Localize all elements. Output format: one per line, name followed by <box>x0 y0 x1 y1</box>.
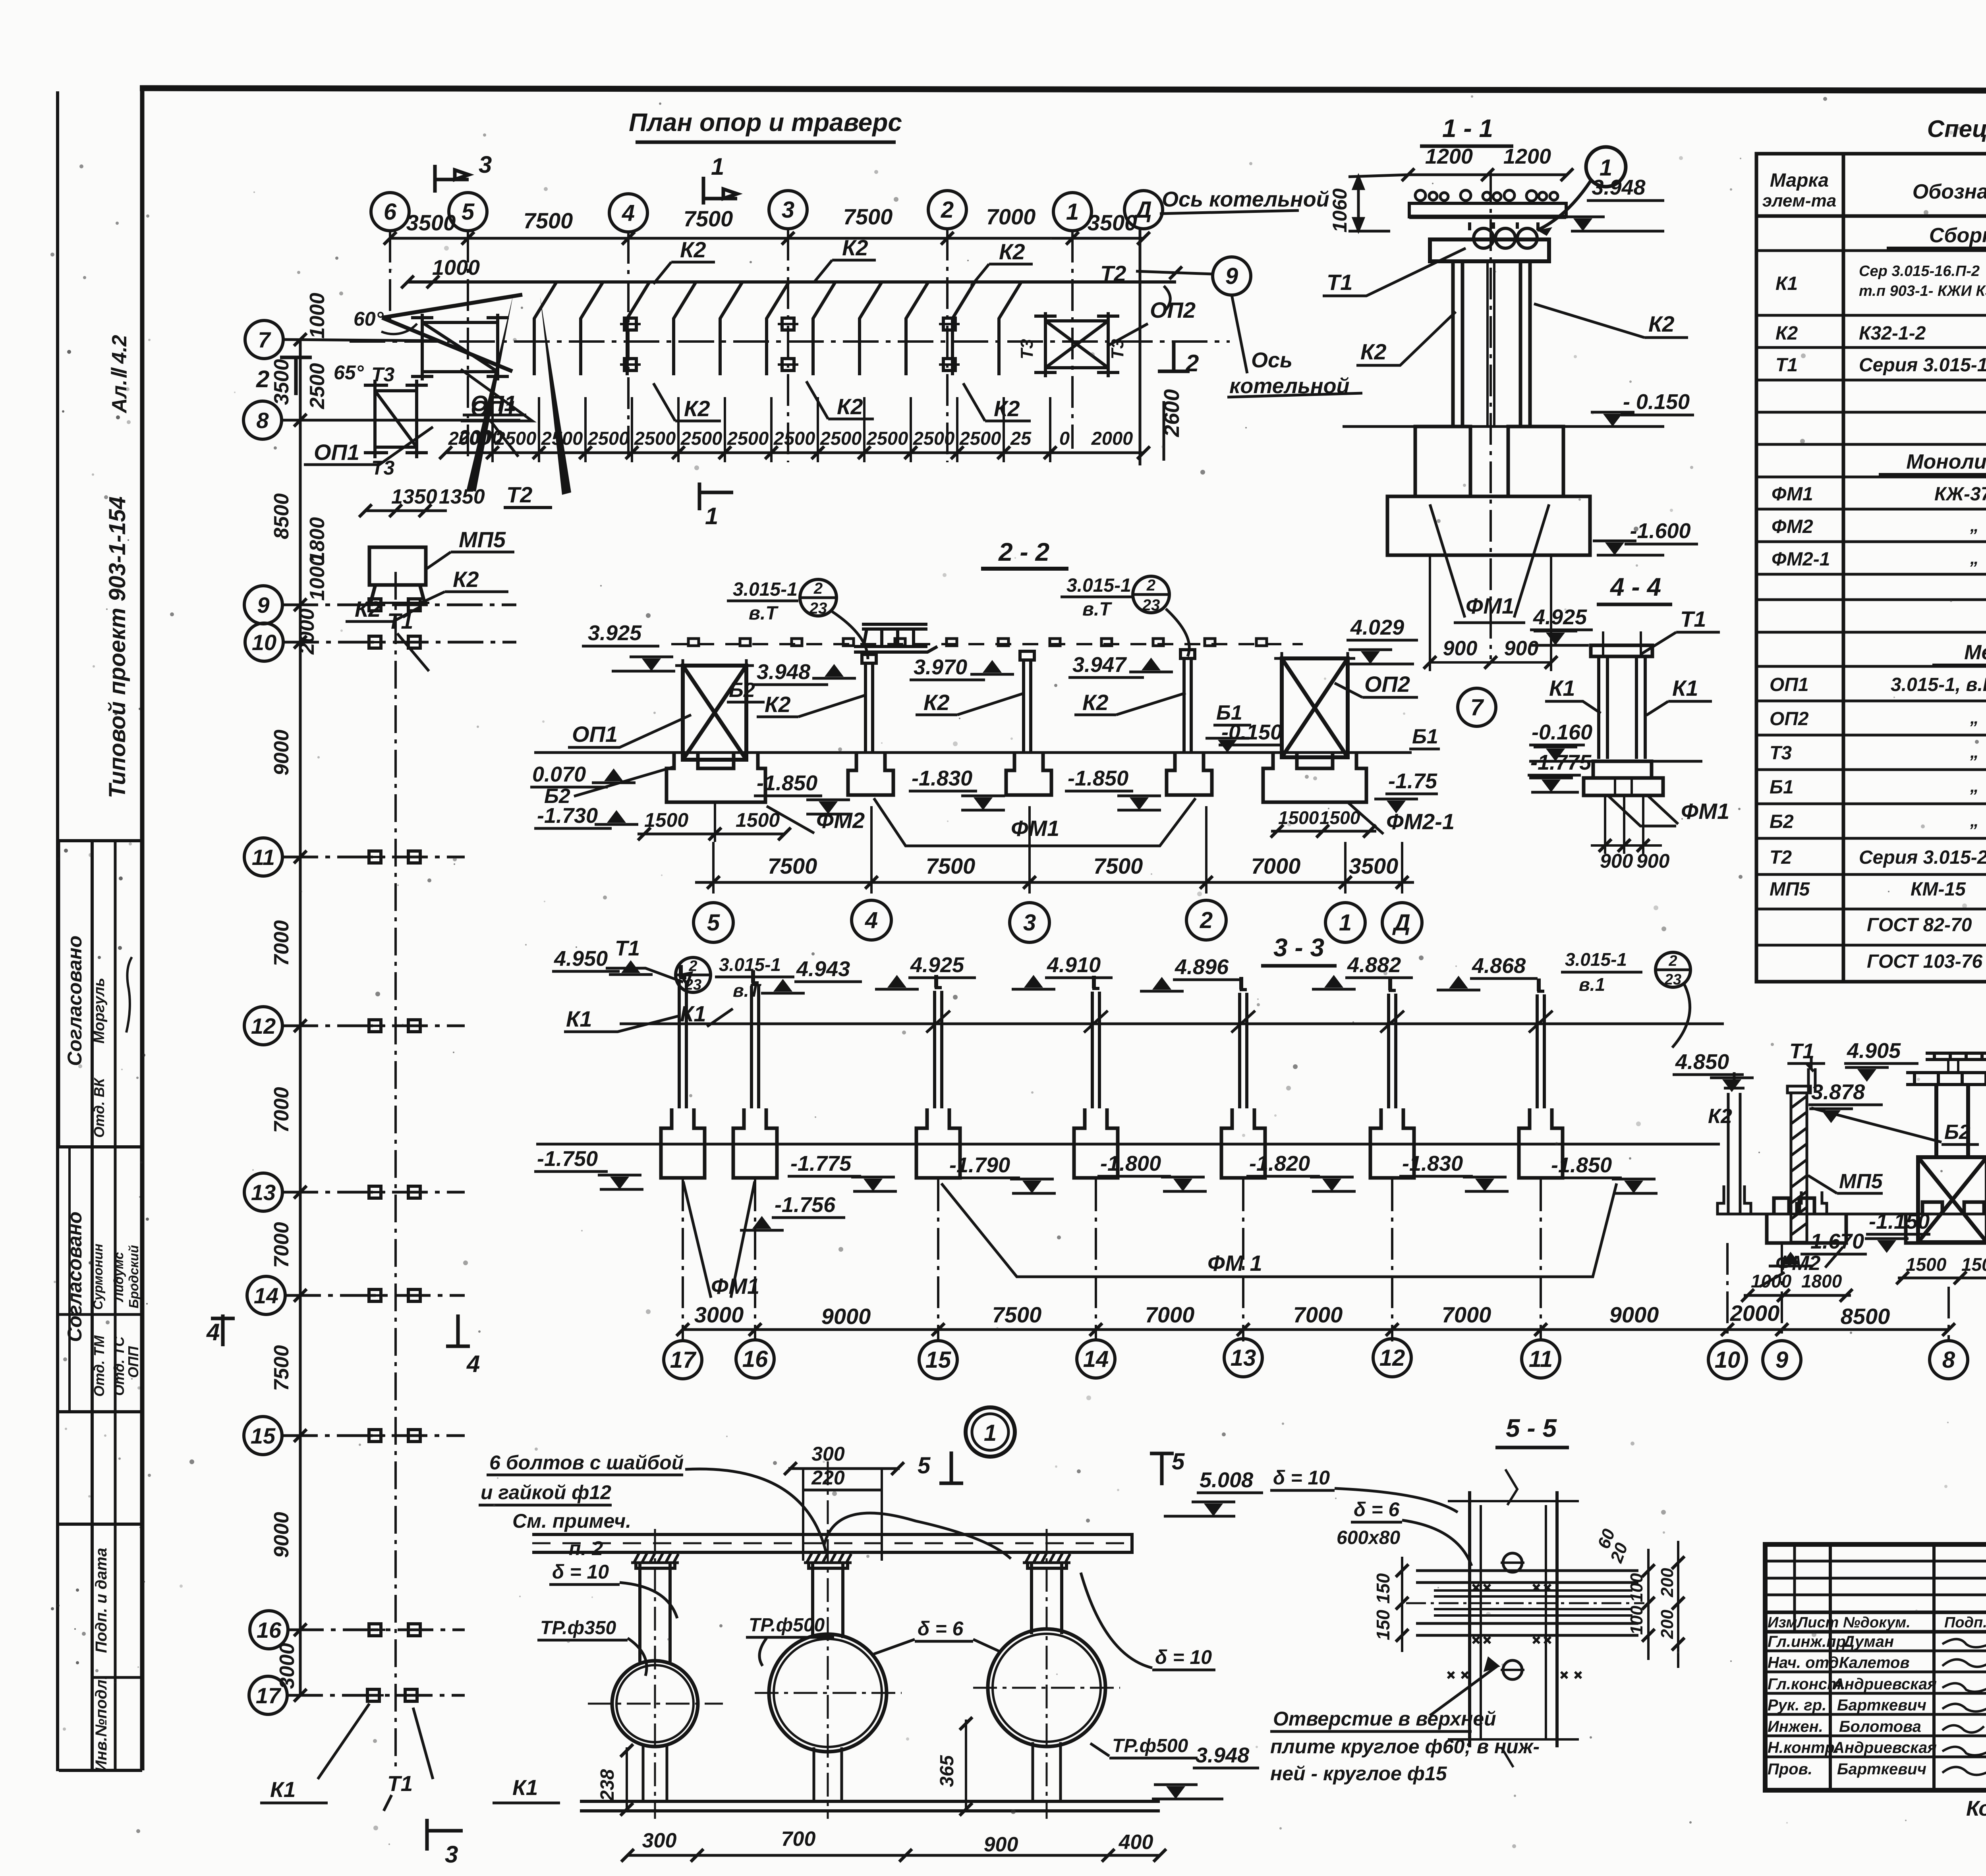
svg-text:0.070: 0.070 <box>532 762 586 786</box>
svg-text:60°: 60° <box>354 308 384 330</box>
svg-text:3.948: 3.948 <box>757 660 810 684</box>
svg-text:1: 1 <box>984 1420 997 1446</box>
section mark 4 left <box>211 1314 470 1346</box>
svg-text:100: 100 <box>1627 1606 1646 1635</box>
plan axis circle 5 <box>449 193 487 231</box>
svg-text:2: 2 <box>1185 350 1199 376</box>
detail circle 1 <box>1586 147 1626 187</box>
node detail circle 1 <box>966 1407 1015 1457</box>
spec table grid <box>1756 154 1986 982</box>
svg-text:7500: 7500 <box>270 1345 293 1391</box>
K2 label right of MP5 <box>421 592 508 603</box>
svg-text:15: 15 <box>925 1347 951 1373</box>
svg-text:5.008: 5.008 <box>1200 1468 1253 1492</box>
svg-text:ФМ2: ФМ2 <box>816 808 865 833</box>
svg-text:900: 900 <box>984 1833 1018 1856</box>
svg-text:900: 900 <box>1600 850 1633 872</box>
svg-text:7500: 7500 <box>684 206 733 231</box>
svg-text:2000: 2000 <box>296 608 319 655</box>
svg-text:К32-1-2: К32-1-2 <box>1859 323 1926 344</box>
svg-text:плите круглое ф60; в ниж-: плите круглое ф60; в ниж- <box>1270 1735 1540 1758</box>
svg-text:Сер 3.015-16.П-2: Сер 3.015-16.П-2 <box>1859 263 1980 280</box>
svg-text:4.896: 4.896 <box>1175 955 1229 979</box>
svg-text:5: 5 <box>1172 1449 1185 1475</box>
T3 box on axis 8 <box>364 380 428 458</box>
svg-text:6 болтов с шайбой: 6 болтов с шайбой <box>489 1451 684 1474</box>
svg-text:7500: 7500 <box>843 204 893 229</box>
5-5 bolts <box>1503 1553 1522 1572</box>
svg-text:17: 17 <box>670 1347 697 1373</box>
ground line 2-2 <box>534 751 1412 754</box>
svg-text:Т3: Т3 <box>371 457 395 479</box>
bottom dim verticals through line <box>493 397 1050 462</box>
svg-text:Обозначение: Обозначение <box>1913 180 1986 203</box>
svg-text:Андриевская: Андриевская <box>1833 1739 1937 1756</box>
svg-text:Андриевская: Андриевская <box>1833 1675 1937 1693</box>
svg-text:1: 1 <box>711 153 724 180</box>
svg-text:Ал.Ⅱ 4.2: Ал.Ⅱ 4.2 <box>108 335 131 414</box>
section mark 3 bottom <box>427 1819 463 1851</box>
svg-text:2500: 2500 <box>680 428 723 449</box>
svg-text:13: 13 <box>1231 1345 1256 1371</box>
svg-text:Барткевич: Барткевич <box>1837 1760 1926 1778</box>
svg-text:ОП2: ОП2 <box>1770 708 1809 730</box>
svg-text:2500: 2500 <box>959 428 1001 449</box>
svg-text:Т2: Т2 <box>1100 261 1126 286</box>
axis circle 8 <box>243 401 282 439</box>
svg-text:9: 9 <box>1225 263 1238 289</box>
svg-text:т.п 903-1- КЖИ К32-1-1;: т.п 903-1- КЖИ К32-1-1; <box>1859 283 1986 299</box>
svg-text:150: 150 <box>1373 1610 1393 1640</box>
svg-text:4.868: 4.868 <box>1472 954 1526 978</box>
svg-text:Т3: Т3 <box>1770 743 1792 764</box>
svg-text:1: 1 <box>1339 910 1352 936</box>
svg-text:Ось: Ось <box>1251 348 1292 372</box>
svg-text:5 - 5: 5 - 5 <box>1506 1414 1557 1442</box>
svg-text:3: 3 <box>1023 910 1036 936</box>
svg-text:3500: 3500 <box>1349 853 1399 878</box>
svg-text:-1.775: -1.775 <box>790 1152 852 1175</box>
svg-text:8500: 8500 <box>1841 1304 1890 1329</box>
svg-text:Подп.: Подп. <box>1944 1614 1986 1631</box>
svg-text:1: 1 <box>1066 199 1079 225</box>
plan top dimension line <box>390 237 1144 240</box>
svg-text:К2: К2 <box>999 239 1025 264</box>
svg-text:1500: 1500 <box>644 809 688 831</box>
svg-text:ГОСТ 82-70: ГОСТ 82-70 <box>1867 915 1972 936</box>
svg-text:Б2: Б2 <box>1770 811 1794 832</box>
T1 cap plate 4-4 <box>1591 645 1652 656</box>
svg-text:23: 23 <box>809 600 827 617</box>
svg-text:1500: 1500 <box>1906 1254 1947 1275</box>
svg-text:Серия 3.015-1 в.П-2: Серия 3.015-1 в.П-2 <box>1859 355 1986 376</box>
svg-text:7000: 7000 <box>270 1222 293 1268</box>
svg-text:Лидумс: Лидумс <box>111 1252 126 1302</box>
svg-text:Пров.: Пров. <box>1768 1760 1812 1778</box>
pipe TR f500 right <box>988 1629 1105 1747</box>
svg-text:10: 10 <box>252 630 276 655</box>
svg-text:Металличвокие опоры: Металличвокие опоры <box>1964 641 1986 664</box>
svg-text:3500: 3500 <box>270 359 293 405</box>
svg-text:Отд. ТМ: Отд. ТМ <box>91 1335 107 1397</box>
svg-text:5: 5 <box>462 199 475 225</box>
svg-text:1 - 1: 1 - 1 <box>1442 114 1493 143</box>
svg-text:4.925: 4.925 <box>1533 605 1587 629</box>
traverse T2 plate with bolts <box>1409 203 1566 217</box>
svg-text:-1.775: -1.775 <box>1530 751 1592 774</box>
svg-text:МП5: МП5 <box>1770 879 1810 900</box>
svg-text:3.015-1: 3.015-1 <box>719 954 781 975</box>
pipe centrelines <box>588 1461 1120 1819</box>
svg-text:Серия 3.015-2 в.Ш: Серия 3.015-2 в.Ш <box>1859 847 1986 868</box>
svg-text:9000: 9000 <box>270 730 293 776</box>
foundation slab <box>1387 496 1590 555</box>
svg-text:ФМ2-1: ФМ2-1 <box>1386 809 1455 834</box>
axis circle 9 <box>244 586 282 624</box>
plan axis circle D <box>1124 191 1163 229</box>
ground line 1-1 <box>1343 425 1664 428</box>
svg-text:„: „ <box>1970 708 1979 728</box>
svg-text:δ = 10: δ = 10 <box>552 1561 609 1583</box>
svg-text:ФМ2: ФМ2 <box>1772 516 1813 537</box>
svg-text:900: 900 <box>1504 637 1539 660</box>
svg-text:9000: 9000 <box>821 1304 871 1329</box>
svg-text:4 - 4: 4 - 4 <box>1609 573 1661 601</box>
svg-text:ОП2: ОП2 <box>1150 297 1196 322</box>
svg-text:4: 4 <box>206 1319 220 1345</box>
svg-text:7000: 7000 <box>1145 1302 1195 1327</box>
svg-text:10: 10 <box>1715 1347 1741 1373</box>
section mark 1 top <box>703 177 737 205</box>
svg-text:7000: 7000 <box>270 1087 293 1133</box>
opora OP1 tower 2-2 <box>675 659 754 760</box>
svg-text:900: 900 <box>1443 637 1478 660</box>
svg-text:2: 2 <box>813 580 823 597</box>
dim 900 900 4-4 <box>1591 796 1662 854</box>
svg-text:100: 100 <box>1627 1573 1646 1602</box>
svg-text:-1.756: -1.756 <box>775 1193 836 1217</box>
svg-text:δ = 10: δ = 10 <box>1155 1646 1212 1668</box>
axis circle 10 <box>245 623 283 661</box>
foundation FM1 pedestal axis3 <box>1006 753 1051 795</box>
leader from 6 boltov to saddles <box>685 1469 1011 1559</box>
svg-text:7500: 7500 <box>768 853 817 878</box>
opora OP2 box in plan <box>1034 312 1119 377</box>
column K2 shafts <box>1453 261 1530 427</box>
svg-text:ней - круглое ф15: ней - круглое ф15 <box>1270 1762 1447 1785</box>
svg-text:1500: 1500 <box>736 809 780 831</box>
svg-text:ОП1: ОП1 <box>572 722 618 747</box>
FM1 label with leaders <box>1430 504 1549 623</box>
svg-text:25: 25 <box>1010 428 1032 449</box>
svg-text:9: 9 <box>1775 1347 1788 1373</box>
svg-text:3.925: 3.925 <box>588 621 642 645</box>
braces pattern (columns with knee braces) <box>534 283 1021 375</box>
svg-text:Б1: Б1 <box>1770 777 1794 798</box>
frame left border <box>140 88 145 1770</box>
plan axis circle 6 <box>371 193 409 231</box>
svg-text:-1.800: -1.800 <box>1100 1152 1161 1175</box>
sidebar box borders <box>59 839 142 842</box>
axis circle 15 <box>244 1417 282 1455</box>
svg-text:2500: 2500 <box>634 428 676 449</box>
svg-text:„: „ <box>1970 516 1979 535</box>
section mark 2 top left <box>280 357 312 395</box>
annotation circle 2/23 left 3-3 <box>676 957 711 992</box>
svg-text:3: 3 <box>782 197 794 223</box>
svg-text:5: 5 <box>707 910 720 936</box>
plan centre dash-dot line <box>350 340 1230 343</box>
svg-text:ОП1: ОП1 <box>314 440 359 465</box>
5-5 weld x marks <box>1448 1585 1581 1678</box>
svg-text:ФМ1: ФМ1 <box>1772 484 1813 505</box>
dashed pipe support line with plates <box>671 643 1303 645</box>
svg-text:ТР.ф350: ТР.ф350 <box>540 1617 616 1639</box>
pipe TR f350 <box>612 1661 698 1747</box>
svg-text:8500: 8500 <box>270 493 293 539</box>
diagonal braces on columns 3-3 <box>926 1011 1553 1033</box>
bolt circles on traverse <box>1415 190 1558 201</box>
K2 labels bottom row with leaders <box>653 381 1031 421</box>
svg-text:1000: 1000 <box>1751 1271 1792 1291</box>
svg-text:8: 8 <box>1942 1347 1955 1373</box>
axis circle 7 <box>245 320 283 359</box>
section mark 5 right <box>1150 1453 1174 1485</box>
svg-text:Б2: Б2 <box>729 679 755 702</box>
svg-text:7000: 7000 <box>1251 853 1301 878</box>
svg-text:-0.160: -0.160 <box>1532 720 1592 744</box>
angled axis lines near axis 6 (60/65 deg) <box>382 295 522 371</box>
svg-text:13: 13 <box>251 1180 276 1205</box>
svg-text:МП5: МП5 <box>459 527 506 552</box>
left axis column centre line <box>394 572 397 1771</box>
plan axis circle 3 <box>769 191 807 229</box>
svg-text:Сборные железобетонные элемент: Сборные железобетонные элементы <box>1929 224 1986 247</box>
svg-text:δ = 6: δ = 6 <box>918 1617 964 1640</box>
svg-text:-1.790: -1.790 <box>949 1153 1010 1177</box>
svg-text:11: 11 <box>1529 1346 1553 1372</box>
svg-text:2500: 2500 <box>913 428 955 449</box>
foundation FM1 pedestal axis2 <box>1167 753 1212 795</box>
svg-text:ФМ2-1: ФМ2-1 <box>1772 549 1830 570</box>
svg-text:Б1: Б1 <box>1412 725 1438 748</box>
svg-text:К2: К2 <box>842 235 868 260</box>
svg-text:„: „ <box>1970 548 1979 568</box>
foundation FM2-1 2-2 <box>1263 753 1366 802</box>
mini table header <box>1768 1614 1986 1631</box>
signatures squiggles <box>1942 1638 1986 1775</box>
svg-text:-1.850: -1.850 <box>1068 766 1128 790</box>
svg-text:238: 238 <box>597 1769 618 1801</box>
svg-text:Марка: Марка <box>1770 170 1829 191</box>
right cluster: MP5 hatched strip <box>1787 1086 1810 1242</box>
svg-text:-1.150: -1.150 <box>1869 1210 1930 1233</box>
bottom dim line 2-2 <box>695 881 1414 884</box>
svg-text:Нач. отд.: Нач. отд. <box>1768 1654 1843 1671</box>
svg-text:- 0.150: - 0.150 <box>1623 390 1690 414</box>
svg-text:Т1: Т1 <box>387 1771 413 1796</box>
saddle over pipe 2 <box>804 1552 852 1638</box>
svg-text:1200: 1200 <box>1425 145 1473 168</box>
svg-text:4.943: 4.943 <box>796 957 850 981</box>
svg-text:-1.830: -1.830 <box>912 766 972 790</box>
svg-text:„: „ <box>1970 811 1979 830</box>
OP1 label left with leader <box>304 427 433 465</box>
MP5 label with leader <box>425 552 514 570</box>
svg-text:2: 2 <box>1200 907 1213 933</box>
5-5 vertical plate with break lines <box>1448 1469 1579 1767</box>
svg-text:3000: 3000 <box>694 1302 744 1327</box>
svg-text:4.882: 4.882 <box>1347 953 1401 977</box>
OP1 label right <box>463 415 526 457</box>
svg-text:К1: К1 <box>270 1777 296 1802</box>
svg-text:К2: К2 <box>1775 323 1798 344</box>
svg-text:300: 300 <box>642 1829 677 1852</box>
svg-text:-1.750: -1.750 <box>537 1147 598 1171</box>
svg-text:3500: 3500 <box>1088 210 1137 235</box>
opora OP1 box in plan <box>411 314 509 380</box>
svg-text:К1: К1 <box>1672 676 1698 701</box>
svg-text:Т1: Т1 <box>387 608 413 633</box>
svg-text:4.925: 4.925 <box>910 953 964 977</box>
svg-text:Калетов: Калетов <box>1839 1654 1910 1671</box>
svg-text:3: 3 <box>479 151 492 178</box>
svg-text:См. примеч.: См. примеч. <box>512 1510 631 1532</box>
svg-text:Думан: Думан <box>1842 1633 1894 1650</box>
svg-text:15: 15 <box>251 1423 276 1448</box>
svg-text:1500: 1500 <box>1278 807 1319 828</box>
svg-text:16: 16 <box>257 1617 282 1642</box>
opora OP2 tower 2-2 <box>1274 652 1355 757</box>
svg-text:2500: 2500 <box>866 428 908 449</box>
svg-text:3000: 3000 <box>276 1643 299 1689</box>
svg-text:ОП2: ОП2 <box>1364 672 1410 697</box>
svg-text:23: 23 <box>1664 971 1681 988</box>
svg-text:7: 7 <box>258 327 271 352</box>
svg-text:Отд. ВК: Отд. ВК <box>91 1077 107 1138</box>
ground line 3-3 <box>536 1143 1720 1146</box>
svg-text:Н.контр.: Н.контр. <box>1768 1739 1839 1756</box>
svg-text:Т1: Т1 <box>1775 355 1798 376</box>
svg-text:Т1: Т1 <box>1327 270 1352 295</box>
svg-text:Рук. гр.: Рук. гр. <box>1768 1697 1826 1714</box>
K2 leader labels row 2-2 <box>757 693 1186 717</box>
svg-text:Т1: Т1 <box>1680 606 1706 631</box>
plan axis circle 9 right <box>1213 257 1251 295</box>
T1 column stub right <box>1808 1056 1815 1093</box>
svg-text:3.015-1: 3.015-1 <box>1066 575 1131 596</box>
svg-text:К1: К1 <box>512 1775 538 1800</box>
svg-text:200: 200 <box>1658 1610 1677 1639</box>
svg-text:Болотова: Болотова <box>1839 1718 1921 1735</box>
dim ticks on vertical dim line <box>294 333 307 1702</box>
svg-text:7500: 7500 <box>992 1302 1042 1327</box>
svg-text:Копировал: Волкова 15858-05 39: Копировал: Волкова 15858-05 39 Формат 2 <box>1966 1797 1986 1820</box>
svg-text:Типовой проект 903-1-154: Типовой проект 903-1-154 <box>104 496 130 798</box>
foundation pedestals <box>1387 427 1590 555</box>
svg-text:12: 12 <box>1379 1345 1405 1371</box>
svg-text:-1.730: -1.730 <box>537 804 598 828</box>
svg-text:ОП1: ОП1 <box>471 391 516 416</box>
column cap plate <box>1430 239 1549 261</box>
axis circle 17 <box>249 1676 287 1714</box>
svg-text:К1: К1 <box>566 1006 592 1031</box>
svg-text:3.947: 3.947 <box>1072 653 1127 677</box>
dim 900 900 under 1-1 <box>1430 555 1551 671</box>
svg-text:3.948: 3.948 <box>1196 1743 1249 1767</box>
svg-text:К2: К2 <box>1082 690 1109 715</box>
axis circle 7 below 1-1 <box>1458 688 1496 726</box>
svg-text:№докум.: №докум. <box>1843 1614 1911 1631</box>
svg-text:Отверстие в верхней: Отверстие в верхней <box>1273 1708 1496 1730</box>
svg-text:365: 365 <box>937 1755 958 1787</box>
5-5 right dims <box>1648 1541 1678 1668</box>
svg-text:3 - 3: 3 - 3 <box>1273 933 1324 962</box>
svg-text:150: 150 <box>1373 1573 1393 1604</box>
svg-text:Гл.инж.пр.: Гл.инж.пр. <box>1768 1633 1850 1650</box>
axis circle 13 <box>244 1173 282 1211</box>
svg-text:К2: К2 <box>923 690 950 715</box>
svg-text:К2: К2 <box>765 692 791 717</box>
svg-text:3.948: 3.948 <box>1592 176 1645 199</box>
svg-text:6: 6 <box>384 199 397 225</box>
svg-text:3.015-1: 3.015-1 <box>1565 949 1627 970</box>
svg-text:3.878: 3.878 <box>1811 1080 1865 1104</box>
svg-text:-1.850: -1.850 <box>757 771 817 795</box>
plan axis verticals <box>390 229 1140 465</box>
svg-text:700: 700 <box>781 1828 816 1851</box>
svg-text:Лист: Лист <box>1796 1614 1839 1631</box>
OP1 tower right cluster <box>1918 1085 1986 1242</box>
bottom dims of detail <box>628 1854 1160 1857</box>
svg-text:Т3: Т3 <box>371 363 395 386</box>
K2 column at axis2 2-2 <box>1180 650 1195 753</box>
K1 columns 4-4 <box>1599 631 1645 759</box>
svg-text:МП5: МП5 <box>1839 1170 1883 1193</box>
foundation FM2 2-2 <box>667 753 765 802</box>
svg-text:К2: К2 <box>837 394 863 419</box>
svg-text:3.015-1, в.Ш: 3.015-1, в.Ш <box>1891 674 1986 695</box>
svg-text:4: 4 <box>466 1351 480 1377</box>
ground line right cluster <box>1720 1213 1986 1216</box>
foundations right cluster <box>1767 1198 1986 1243</box>
svg-text:4.850: 4.850 <box>1675 1050 1729 1074</box>
axis circles 2-2 <box>694 900 1422 942</box>
svg-text:Согласовано: Согласовано <box>64 936 86 1066</box>
svg-text:К2: К2 <box>1708 1105 1732 1128</box>
svg-text:Моргуль: Моргуль <box>91 978 108 1044</box>
svg-text:Сурмонин: Сурмонин <box>91 1244 105 1310</box>
svg-text:-1.820: -1.820 <box>1249 1152 1310 1175</box>
svg-text:14: 14 <box>1083 1346 1109 1372</box>
svg-text:„: „ <box>1970 742 1979 762</box>
svg-text:2000: 2000 <box>1730 1301 1780 1326</box>
svg-text:3.970: 3.970 <box>914 655 967 679</box>
plan bottom dimension line <box>446 452 1144 454</box>
K2 label left lower <box>346 606 421 621</box>
pedestal foundations 3-3 <box>661 1108 1563 1178</box>
svg-text:3.015-1: 3.015-1 <box>733 579 798 600</box>
svg-text:2000: 2000 <box>1091 428 1133 449</box>
5-5 beam plates horizontal <box>1406 1571 1644 1635</box>
bottom dim line 3-3 <box>683 1328 1949 1331</box>
svg-text:КЖ-37: КЖ-37 <box>1934 484 1986 505</box>
plan axis circle 2 <box>928 191 966 229</box>
svg-text:3: 3 <box>445 1841 458 1868</box>
svg-text:600х80: 600х80 <box>1337 1527 1400 1548</box>
svg-text:7500: 7500 <box>926 853 976 878</box>
K2 labels top row with leaders <box>653 260 1033 286</box>
